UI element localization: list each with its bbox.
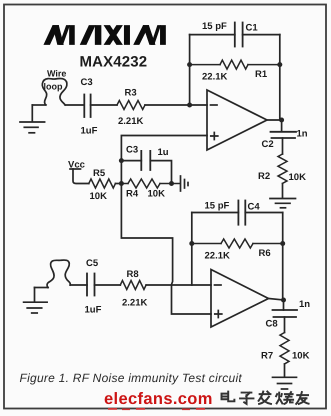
svg-text:C8: C8 xyxy=(266,319,278,330)
watermark chinese characters 电子发烧友 xyxy=(222,392,309,404)
node dot output2 xyxy=(281,298,286,303)
svg-text:Figure 1. RF Noise immunity Te: Figure 1. RF Noise immunity Test circuit xyxy=(20,371,243,385)
node dot C3b tap xyxy=(119,158,124,163)
op-amp U1A xyxy=(207,90,267,150)
node dot R4 right / 1u junction xyxy=(169,181,174,186)
svg-text:C1: C1 xyxy=(246,23,259,34)
svg-text:C5: C5 xyxy=(86,258,99,269)
wire R3 to op-amp inverting input xyxy=(145,104,207,106)
node dot output1 xyxy=(279,118,284,123)
svg-text:10K: 10K xyxy=(289,172,307,183)
node bias left xyxy=(119,181,124,186)
svg-text:R5: R5 xyxy=(93,168,106,179)
svg-text:1n: 1n xyxy=(299,299,310,310)
ground G1 xyxy=(20,105,45,133)
capacitor C2 1n xyxy=(262,129,308,151)
svg-text:1uF: 1uF xyxy=(85,305,102,316)
op-amp U1B xyxy=(211,270,269,328)
svg-text:Wire: Wire xyxy=(47,69,66,79)
resistor R1 22.1K xyxy=(190,60,280,82)
small sideways ground at bias node xyxy=(181,176,189,191)
svg-text:1uF: 1uF xyxy=(81,126,98,137)
svg-text:R3: R3 xyxy=(125,88,137,99)
output wire U1A xyxy=(267,119,282,121)
feedback1 top wire with C1 xyxy=(190,34,280,36)
MAXIM logo xyxy=(44,26,166,45)
svg-text:C3: C3 xyxy=(126,145,138,156)
wire C5 to R8 xyxy=(95,284,121,286)
svg-text:R7: R7 xyxy=(261,351,273,362)
bias vertical to +input U1A xyxy=(121,136,207,184)
wire C2 to R2 xyxy=(282,138,284,154)
resistor R6 22.1K xyxy=(192,239,283,262)
feedback2 left vertical xyxy=(191,213,193,286)
feedback2 top wire with C4 xyxy=(192,212,283,214)
output wire U1B xyxy=(269,299,284,301)
wire input stub left of loop 2 xyxy=(35,287,49,289)
feedback1 right vertical lower / output column xyxy=(280,65,282,132)
feedback2 right vertical xyxy=(282,213,284,244)
node dot R1 right xyxy=(277,62,282,67)
svg-text:22.1K: 22.1K xyxy=(202,72,227,83)
svg-text:22.1K: 22.1K xyxy=(205,251,230,262)
svg-text:15 pF: 15 pF xyxy=(205,201,230,212)
capacitor C8 1n xyxy=(266,299,311,330)
wire R7 to ground xyxy=(284,364,286,377)
wire C8 to R7 xyxy=(284,317,286,333)
svg-text:1u: 1u xyxy=(158,147,169,158)
bias wire down to lower op-amp +input xyxy=(121,184,211,315)
node dot R6 right xyxy=(280,241,285,246)
capacitor C5 1uF xyxy=(85,258,102,316)
svg-text:elecfans.com: elecfans.com xyxy=(104,390,213,408)
ground G4 xyxy=(24,288,47,314)
resistor R7 10K xyxy=(261,333,310,364)
svg-text:loop: loop xyxy=(44,82,63,92)
resistor R4 10K xyxy=(121,179,179,200)
capacitor C3 1uF xyxy=(81,77,98,137)
watermark elecfans.com xyxy=(104,390,213,410)
svg-text:C3: C3 xyxy=(81,77,93,88)
node dot R6 left xyxy=(189,241,194,246)
svg-text:2.21K: 2.21K xyxy=(118,116,143,127)
svg-text:10K: 10K xyxy=(90,191,108,202)
svg-text:C2: C2 xyxy=(262,139,274,150)
ground G5 xyxy=(273,377,297,389)
feedback2 right vertical lower xyxy=(282,244,285,311)
svg-text:R2: R2 xyxy=(258,171,270,182)
ground G3 xyxy=(270,199,296,208)
resistor R5 10K xyxy=(89,168,116,202)
svg-text:MAX4232: MAX4232 xyxy=(80,54,148,71)
svg-text:R4: R4 xyxy=(126,189,139,200)
wire loop L2 xyxy=(47,260,70,288)
wire loop2 to C5 xyxy=(70,284,87,286)
capacitor C4 15pF xyxy=(205,201,261,225)
svg-text:2.21K: 2.21K xyxy=(122,298,147,309)
wire R2 to ground xyxy=(282,184,284,199)
Vcc supply xyxy=(68,160,89,184)
svg-text:1n: 1n xyxy=(297,129,308,140)
resistor R2 10K xyxy=(258,154,306,183)
wire R8 to op-amp2 inverting input xyxy=(146,284,211,286)
node dot R1 left xyxy=(187,62,192,67)
wire loop1 to C3 xyxy=(66,104,84,106)
svg-text:C4: C4 xyxy=(248,202,261,213)
svg-text:10K: 10K xyxy=(292,351,310,362)
resistor R3 2.21K xyxy=(117,88,145,128)
feedback1 left vertical xyxy=(189,35,191,105)
wire loop L1 xyxy=(42,69,67,106)
wire R5 to bias node xyxy=(115,183,121,185)
svg-text:R1: R1 xyxy=(255,69,268,80)
capacitor C1 15pF xyxy=(202,21,258,47)
svg-text:10K: 10K xyxy=(148,189,166,200)
resistor R8 2.21K xyxy=(120,269,147,309)
svg-text:R8: R8 xyxy=(127,269,139,280)
capacitor C3b 1u xyxy=(121,145,171,184)
svg-text:R6: R6 xyxy=(259,248,271,259)
feedback1 right vertical xyxy=(279,35,281,65)
svg-text:15 pF: 15 pF xyxy=(202,21,227,32)
wire input stub left of loop 1 xyxy=(32,104,45,106)
wire C3 to R3 xyxy=(91,104,117,106)
node dot feedback1 to -input xyxy=(187,103,192,108)
